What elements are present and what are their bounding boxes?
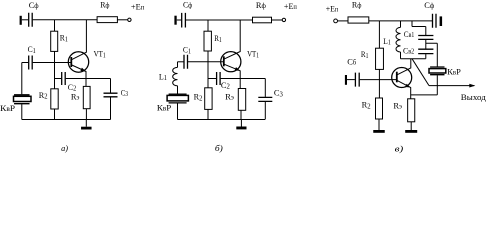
resistor Rf (a): [97, 17, 117, 23]
wire Re to bottom rail (a): [85, 109, 87, 120]
resistor R1 (v): [376, 48, 384, 69]
svg-text:Rэ: Rэ: [393, 100, 402, 110]
resistor R2 (a): [51, 89, 58, 109]
wire divider tap to KvR (v): [426, 43, 438, 66]
wire Rf to +Ep terminal (a): [117, 19, 127, 21]
wire C2 to emitter node (b): [221, 78, 241, 80]
wire Cf left lead (b): [177, 19, 182, 21]
transistor VT1 base bar (a): [70, 57, 72, 67]
wire bottom rail (b): [178, 119, 266, 121]
svg-text:R1: R1: [214, 33, 222, 44]
svg-text:R2: R2: [194, 92, 203, 103]
wire C1 to base (b): [188, 61, 223, 63]
svg-text:а): а): [61, 143, 68, 153]
wire quartz to bottom rail (b): [177, 104, 179, 120]
transistor VT1 outline (b): [221, 52, 241, 72]
terminal +Ep (v): [334, 19, 338, 23]
capacitor Cv1 (v): [418, 36, 433, 40]
svg-text:Rф: Rф: [256, 0, 267, 10]
wire C1 to base (a): [33, 62, 71, 64]
emitter arrow (v): [405, 84, 411, 88]
wire Cb left lead (v): [347, 79, 355, 81]
capacitor C3 (b): [258, 97, 272, 101]
wire base segment left (a): [22, 62, 29, 64]
capacitor C1 (a): [29, 56, 33, 70]
capacitor Cf terminal bar (circuit a): [20, 16, 22, 25]
resistor Re (b): [238, 89, 245, 111]
wire KvR to emitter wire (v): [436, 75, 438, 95]
wire collector (a): [72, 20, 87, 60]
wire divider column mid (v): [425, 40, 427, 49]
wire C3 top lead (a): [110, 79, 112, 93]
wire L1 bottom lead (v): [400, 52, 402, 59]
svg-text:L1: L1: [383, 36, 391, 47]
capacitor Cf (b): [182, 13, 186, 28]
wire base node to R2 (v): [378, 80, 380, 98]
wire emitter to Re (b): [239, 79, 241, 89]
svg-text:С3: С3: [121, 87, 129, 98]
svg-text:С1: С1: [28, 44, 36, 55]
output arrow (v): [469, 84, 475, 88]
svg-text:Сб: Сб: [347, 56, 357, 66]
wire collector (b): [224, 20, 240, 59]
emitter arrow (a): [80, 68, 86, 72]
wire supply rail (a): [33, 19, 97, 21]
resistor R2 (b): [205, 88, 212, 110]
svg-text:Выход: Выход: [461, 92, 487, 102]
wire R2 to bottom rail (b): [207, 109, 209, 119]
wire collector to output (v): [412, 59, 429, 86]
svg-text:Св2: Св2: [403, 46, 415, 56]
capacitor C1 (b): [184, 55, 188, 69]
wire emitter (v): [397, 81, 410, 99]
svg-text:б): б): [215, 143, 223, 153]
svg-text:С3: С3: [274, 88, 284, 99]
quartz resonator KvR (v): [430, 67, 444, 75]
wire L1 to quartz (b): [177, 86, 179, 94]
wire R1 top lead (b): [207, 20, 209, 32]
terminal +Ep (b): [282, 18, 285, 21]
wire quartz to bottom rail (a): [21, 104, 23, 119]
inductor L1 (v): [396, 27, 401, 52]
capacitor Cf terminal bar (v): [440, 16, 443, 26]
svg-text:Сф: Сф: [29, 0, 39, 10]
capacitor Cf (v): [433, 14, 437, 28]
svg-text:в): в): [395, 143, 404, 153]
transistor VT1 base bar (b): [223, 56, 225, 66]
wire C2 to emitter node (a): [66, 78, 87, 80]
transistor VT1 outline (a): [68, 52, 88, 72]
wire R1 bottom to base node down to R2 (a): [54, 51, 56, 88]
wire supply rail (b): [186, 19, 253, 21]
wire emitter to KvR column (v): [411, 94, 438, 96]
capacitor Cb (v): [355, 73, 359, 87]
ground (a): [85, 120, 87, 127]
svg-text:Св1: Св1: [404, 29, 415, 39]
wire base segment left (b): [178, 61, 184, 63]
svg-text:+Еп: +Еп: [131, 1, 145, 11]
transistor base bar (v): [396, 72, 398, 83]
wire L1 top lead (v): [400, 21, 402, 28]
wire +Ep to Rf (v): [338, 20, 348, 22]
capacitor Cf terminal bar (circuit b): [174, 16, 176, 25]
wire R1 top lead (a): [54, 20, 56, 31]
wire divider column bottom (v): [425, 54, 427, 59]
svg-text:Rэ: Rэ: [225, 92, 234, 102]
capacitor C2 (a): [62, 72, 65, 85]
wire R1 top lead (v): [378, 21, 380, 48]
svg-text:Rф: Rф: [352, 0, 362, 10]
wire emitter to Re (a): [85, 79, 87, 87]
capacitor Cb terminal bar (v): [345, 75, 347, 85]
wire divider branch jog (v): [412, 21, 426, 27]
svg-text:+Еп: +Еп: [326, 3, 339, 13]
capacitor C3 (a): [104, 93, 118, 97]
wire supply rail (v): [369, 20, 432, 22]
svg-text:КвР: КвР: [0, 103, 15, 113]
wire C3 top lead (b): [264, 79, 266, 97]
wire R2 to bottom rail (a): [54, 109, 56, 120]
svg-text:VT1: VT1: [247, 49, 259, 60]
svg-text:КвР: КвР: [447, 67, 461, 77]
wire Cf left lead (a): [22, 19, 28, 21]
wire base column to C2 (b): [208, 78, 216, 80]
transistor outline (v): [392, 68, 412, 88]
capacitor Cv2 (v): [418, 49, 433, 53]
resistor R1 (a): [51, 31, 58, 51]
wire R1 bottom to base node down to R2 (b): [207, 51, 209, 88]
resistor Rf (v): [348, 17, 369, 23]
wire output (v): [429, 85, 474, 87]
resistor R2 (v): [376, 98, 383, 119]
wire Cb to base (v): [360, 79, 397, 81]
resistor R1 (b): [204, 31, 211, 51]
capacitor C2 (b): [217, 72, 221, 85]
wire emitter node to C3 (b): [240, 78, 265, 80]
resistor Rf (b): [253, 17, 272, 23]
wire tank bottom (v): [401, 58, 426, 60]
quartz resonator KvR (b): [169, 94, 187, 103]
ground (b): [240, 120, 242, 127]
ground under Re (v): [410, 122, 412, 130]
resistor Re (a): [83, 86, 90, 108]
wire left column to quartz (a): [21, 63, 23, 95]
quartz resonator KvR (a): [14, 95, 29, 104]
svg-text:R2: R2: [39, 90, 48, 101]
svg-text:Rф: Rф: [100, 0, 110, 9]
wire emitter (a): [72, 65, 86, 79]
resistor Re (v): [408, 99, 415, 122]
wire Re to bottom rail (b): [240, 110, 242, 119]
wire R1 to base node (v): [378, 69, 380, 79]
svg-text:R2: R2: [362, 100, 372, 111]
wire emitter node to C3 (a): [87, 78, 111, 80]
svg-text:+Еп: +Еп: [284, 1, 297, 11]
ground under R2 (v): [378, 119, 380, 130]
inductor L1 (b): [173, 67, 178, 85]
svg-text:VT1: VT1: [94, 49, 106, 60]
wire emitter (b): [224, 64, 240, 78]
wire Rf to +Ep terminal (b): [272, 19, 283, 21]
wire C3 to bottom rail (a): [110, 97, 112, 119]
terminal +Ep (a): [128, 18, 131, 21]
svg-text:С2: С2: [221, 80, 231, 91]
svg-text:Сф: Сф: [424, 0, 435, 10]
svg-text:R1: R1: [361, 49, 369, 60]
svg-text:L1: L1: [159, 71, 167, 82]
svg-text:R1: R1: [60, 33, 68, 44]
wire collector to tank (v): [397, 59, 411, 75]
wire C3 to bottom rail (b): [264, 102, 266, 120]
wire base column to C2 (a): [55, 78, 62, 80]
svg-text:Сф: Сф: [183, 0, 193, 10]
wire L1 top lead (b): [177, 62, 179, 68]
wire bottom rail (a): [22, 119, 111, 121]
wire divider column top (v): [425, 27, 427, 36]
svg-text:КвР: КвР: [157, 102, 172, 112]
svg-text:С1: С1: [183, 45, 191, 56]
svg-text:Rэ: Rэ: [71, 92, 80, 102]
capacitor Cf (a): [29, 13, 33, 27]
emitter arrow (b): [235, 67, 241, 71]
